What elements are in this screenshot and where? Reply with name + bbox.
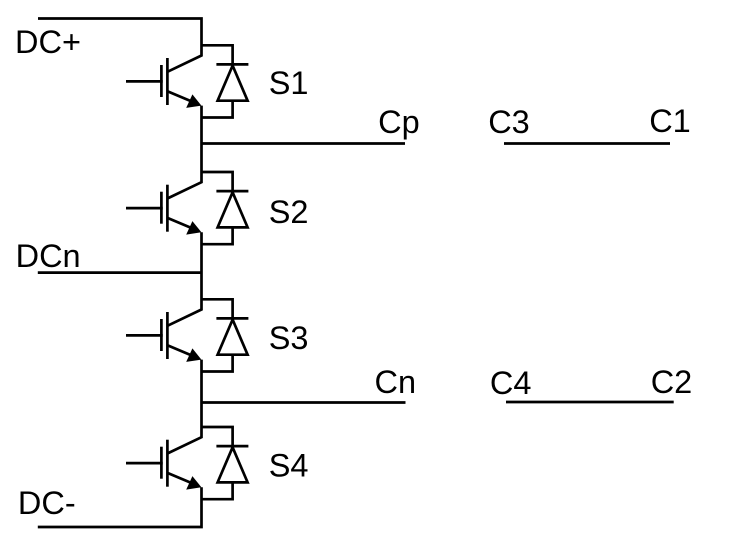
diode D3 triangle (218, 320, 248, 355)
transistor Q1 gate bar (160, 65, 163, 97)
svg-text:DC+: DC+ (15, 24, 81, 60)
svg-text:S1: S1 (269, 65, 309, 101)
transistor Q2 body bar (166, 185, 169, 232)
transistor Q3 (S3) gate lead (126, 334, 163, 337)
wire C3 to C1 line (504, 142, 670, 145)
transistor Q2 emitter arrowhead (186, 221, 201, 235)
wire node Cp output (202, 142, 406, 145)
transistor Q1 emitter diagonal (167, 91, 198, 104)
transistor Q4 emitter arrowhead (186, 476, 201, 490)
transistor Q4 gate bar (160, 447, 163, 479)
transistor Q1 emitter arrowhead (186, 94, 201, 108)
svg-text:S2: S2 (269, 194, 309, 230)
svg-text:C2: C2 (651, 364, 693, 400)
transistor Q4 (S4) gate lead (126, 462, 163, 465)
wire bus Q1 emitter to Q2 collector (167, 106, 201, 199)
wire D4 anode to bus (202, 482, 233, 499)
wire D3 anode to bus (202, 355, 233, 372)
wire Q2 collector stub to D2 cathode (202, 172, 233, 191)
wire bus Q3 emitter to Q4 collector (167, 360, 201, 454)
transistor Q3 emitter diagonal (167, 345, 198, 358)
wire DC+ rail and bus to Q1 collector (38, 19, 202, 72)
diode D1 cathode bar (216, 63, 248, 66)
transistor Q3 emitter arrowhead (186, 348, 201, 362)
diode D3 cathode bar (216, 317, 248, 320)
wire bus Q4 emitter to DC- rail (38, 487, 202, 527)
transistor Q4 body bar (166, 440, 169, 487)
transistor Q4 emitter diagonal (167, 473, 198, 486)
svg-text:S4: S4 (269, 448, 309, 484)
diode D2 cathode bar (216, 190, 248, 193)
transistor Q1 (S1) gate lead (126, 80, 163, 83)
diode D1 triangle (218, 66, 248, 101)
svg-text:C1: C1 (649, 103, 691, 139)
transistor Q3 body bar (166, 312, 169, 359)
wire Q3 collector stub to D3 cathode (202, 299, 233, 318)
diode D2 triangle (218, 192, 248, 227)
wire bus Q2 emitter to Q3 collector (167, 232, 201, 325)
svg-text:C3: C3 (488, 104, 530, 140)
wire C4 to C2 line (506, 401, 674, 404)
transistor Q3 gate bar (160, 319, 163, 351)
svg-text:Cn: Cn (375, 364, 417, 400)
transistor Q2 emitter diagonal (167, 218, 198, 231)
wire node Cn output (202, 401, 406, 404)
diode D4 triangle (218, 447, 248, 482)
wire D2 anode to bus (202, 227, 233, 244)
wire Q1 collector stub to D1 cathode (202, 45, 233, 64)
wire DCn rail (38, 271, 202, 274)
transistor Q1 body bar (166, 58, 169, 105)
svg-text:C4: C4 (490, 365, 532, 401)
transistor Q2 (S2) gate lead (126, 207, 163, 210)
wire D1 anode to bus (202, 101, 233, 118)
wire Q4 collector stub to D4 cathode (202, 427, 233, 446)
svg-text:S3: S3 (269, 320, 309, 356)
svg-text:DCn: DCn (16, 238, 81, 274)
transistor Q2 gate bar (160, 192, 163, 224)
diode D4 cathode bar (216, 445, 248, 448)
svg-text:DC-: DC- (18, 485, 76, 521)
svg-text:Cp: Cp (378, 104, 420, 140)
